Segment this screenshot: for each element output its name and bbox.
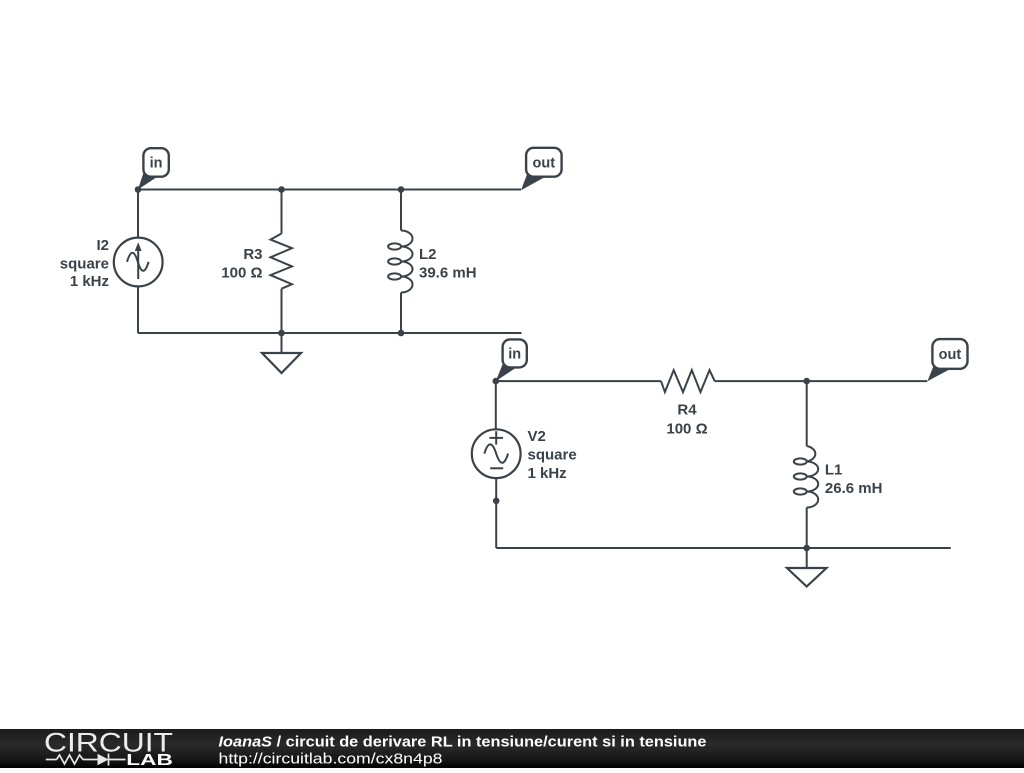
flag out (circuit2) [927,339,967,381]
node in (circuit2) [493,378,500,385]
wire: circuit1 bottom rail [138,332,522,334]
flag in (circuit2) [496,339,527,381]
node in (circuit1) [135,186,142,193]
wire: circuit2 top rail right [715,380,928,382]
flag in (circuit1) [138,148,169,189]
wire: I2 left branch top [137,190,139,238]
svg-text:39.6 mH: 39.6 mH [419,265,477,282]
node R3 top [278,186,285,193]
node L2 top [398,186,405,193]
svg-text:in: in [508,347,521,363]
logo resistor-diode glyph [46,754,126,766]
current source I2 circle [114,238,163,287]
inductor L2 [401,231,413,293]
node R4/L1 junction [803,378,810,385]
node L1 bottom / ground junction [803,545,810,552]
logo diode triangle [98,754,109,766]
svg-text:26.6 mH: 26.6 mH [825,480,883,497]
svg-text:R3: R3 [243,246,262,263]
svg-text:square: square [528,447,577,464]
voltage source V2 circle [472,429,521,478]
svg-text:IoanaS / circuit de derivare R: IoanaS / circuit de derivare RL in tensi… [219,734,707,751]
wire: I2 left branch bottom [137,286,139,333]
svg-text:100 Ω: 100 Ω [666,421,707,438]
svg-text:V2: V2 [528,428,546,445]
svg-text:I2: I2 [96,237,109,254]
svg-text:L1: L1 [825,461,843,478]
svg-text:out: out [939,347,962,363]
wire: circuit2 bottom rail [496,547,951,549]
ground (circuit 2) [806,548,808,568]
inductor L1 [807,446,819,508]
wire: circuit1 top rail [138,189,521,191]
node dots [135,186,810,551]
wire: circuit2 top rail left [496,380,661,382]
node R3 bottom / ground junction [278,330,285,337]
wire: R3 bottom lead [281,289,283,333]
V2 source internals: sine + plus + minus [484,431,508,468]
svg-text:100 Ω: 100 Ω [221,264,262,281]
wire: R3 top lead [281,190,283,234]
wire: L2 top lead [400,190,402,231]
I2 source internals: sine + arrow [127,250,149,279]
node V2 bottom [493,498,500,505]
svg-text:out: out [533,155,556,171]
svg-text:L2: L2 [419,246,437,263]
ground (circuit 1) [281,333,283,353]
wire: L1 top lead [806,381,808,446]
wire: V2 branch bottom [495,478,497,548]
svg-text:1 kHz: 1 kHz [528,465,567,482]
svg-text:R4: R4 [677,402,697,419]
resistor R3 [271,234,293,289]
svg-text:LAB: LAB [126,752,173,768]
wire: V2 branch top [495,381,497,429]
flag out (circuit1) [521,148,562,190]
wire: L1 bottom lead [806,508,808,549]
svg-text:1 kHz: 1 kHz [70,273,109,290]
svg-text:in: in [150,156,163,172]
resistor R4 [661,370,715,392]
svg-text:http://circuitlab.com/cx8n4p8: http://circuitlab.com/cx8n4p8 [219,751,443,768]
node L2 bottom [398,330,405,337]
wire: L2 bottom lead [400,293,402,334]
svg-text:square: square [60,256,109,273]
